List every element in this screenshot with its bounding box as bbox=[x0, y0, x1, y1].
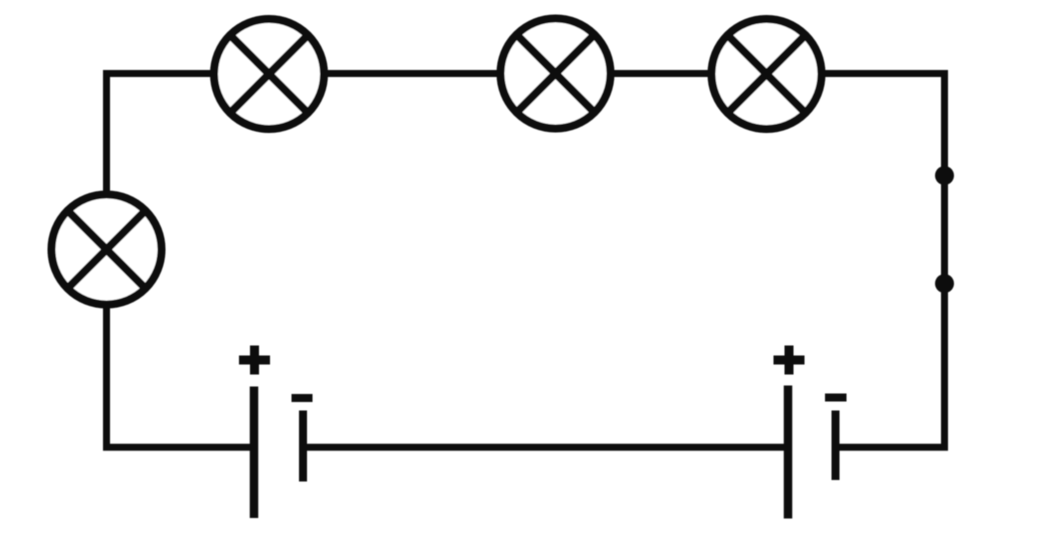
junction dot (lower) on right wire bbox=[935, 274, 954, 293]
lamp X4 (third on top wire) bbox=[712, 19, 822, 129]
junction dot (upper) on right wire bbox=[935, 166, 954, 185]
wire: left side, top side and right side of the loop bbox=[107, 74, 945, 448]
battery B2 (right cell) bbox=[774, 346, 847, 519]
battery B1 minus label bbox=[292, 394, 313, 402]
battery B1 plus label bbox=[239, 346, 270, 375]
lamp X1 (left side of loop) bbox=[52, 195, 162, 305]
lamp X2 (first on top wire) bbox=[214, 19, 324, 129]
battery B2 plus label bbox=[774, 346, 805, 375]
battery B1 negative plate (short) bbox=[299, 411, 307, 482]
battery B1 positive plate (long) bbox=[250, 387, 259, 519]
battery B1 (left cell) bbox=[239, 346, 313, 519]
battery B2 positive plate (long) bbox=[784, 386, 793, 519]
battery B2 negative plate (short) bbox=[832, 411, 840, 481]
lamp X3 (second on top wire) bbox=[501, 19, 611, 129]
battery B2 minus label bbox=[825, 394, 847, 402]
wire: bottom middle segment between battery B1 and battery B2 bbox=[303, 444, 788, 451]
